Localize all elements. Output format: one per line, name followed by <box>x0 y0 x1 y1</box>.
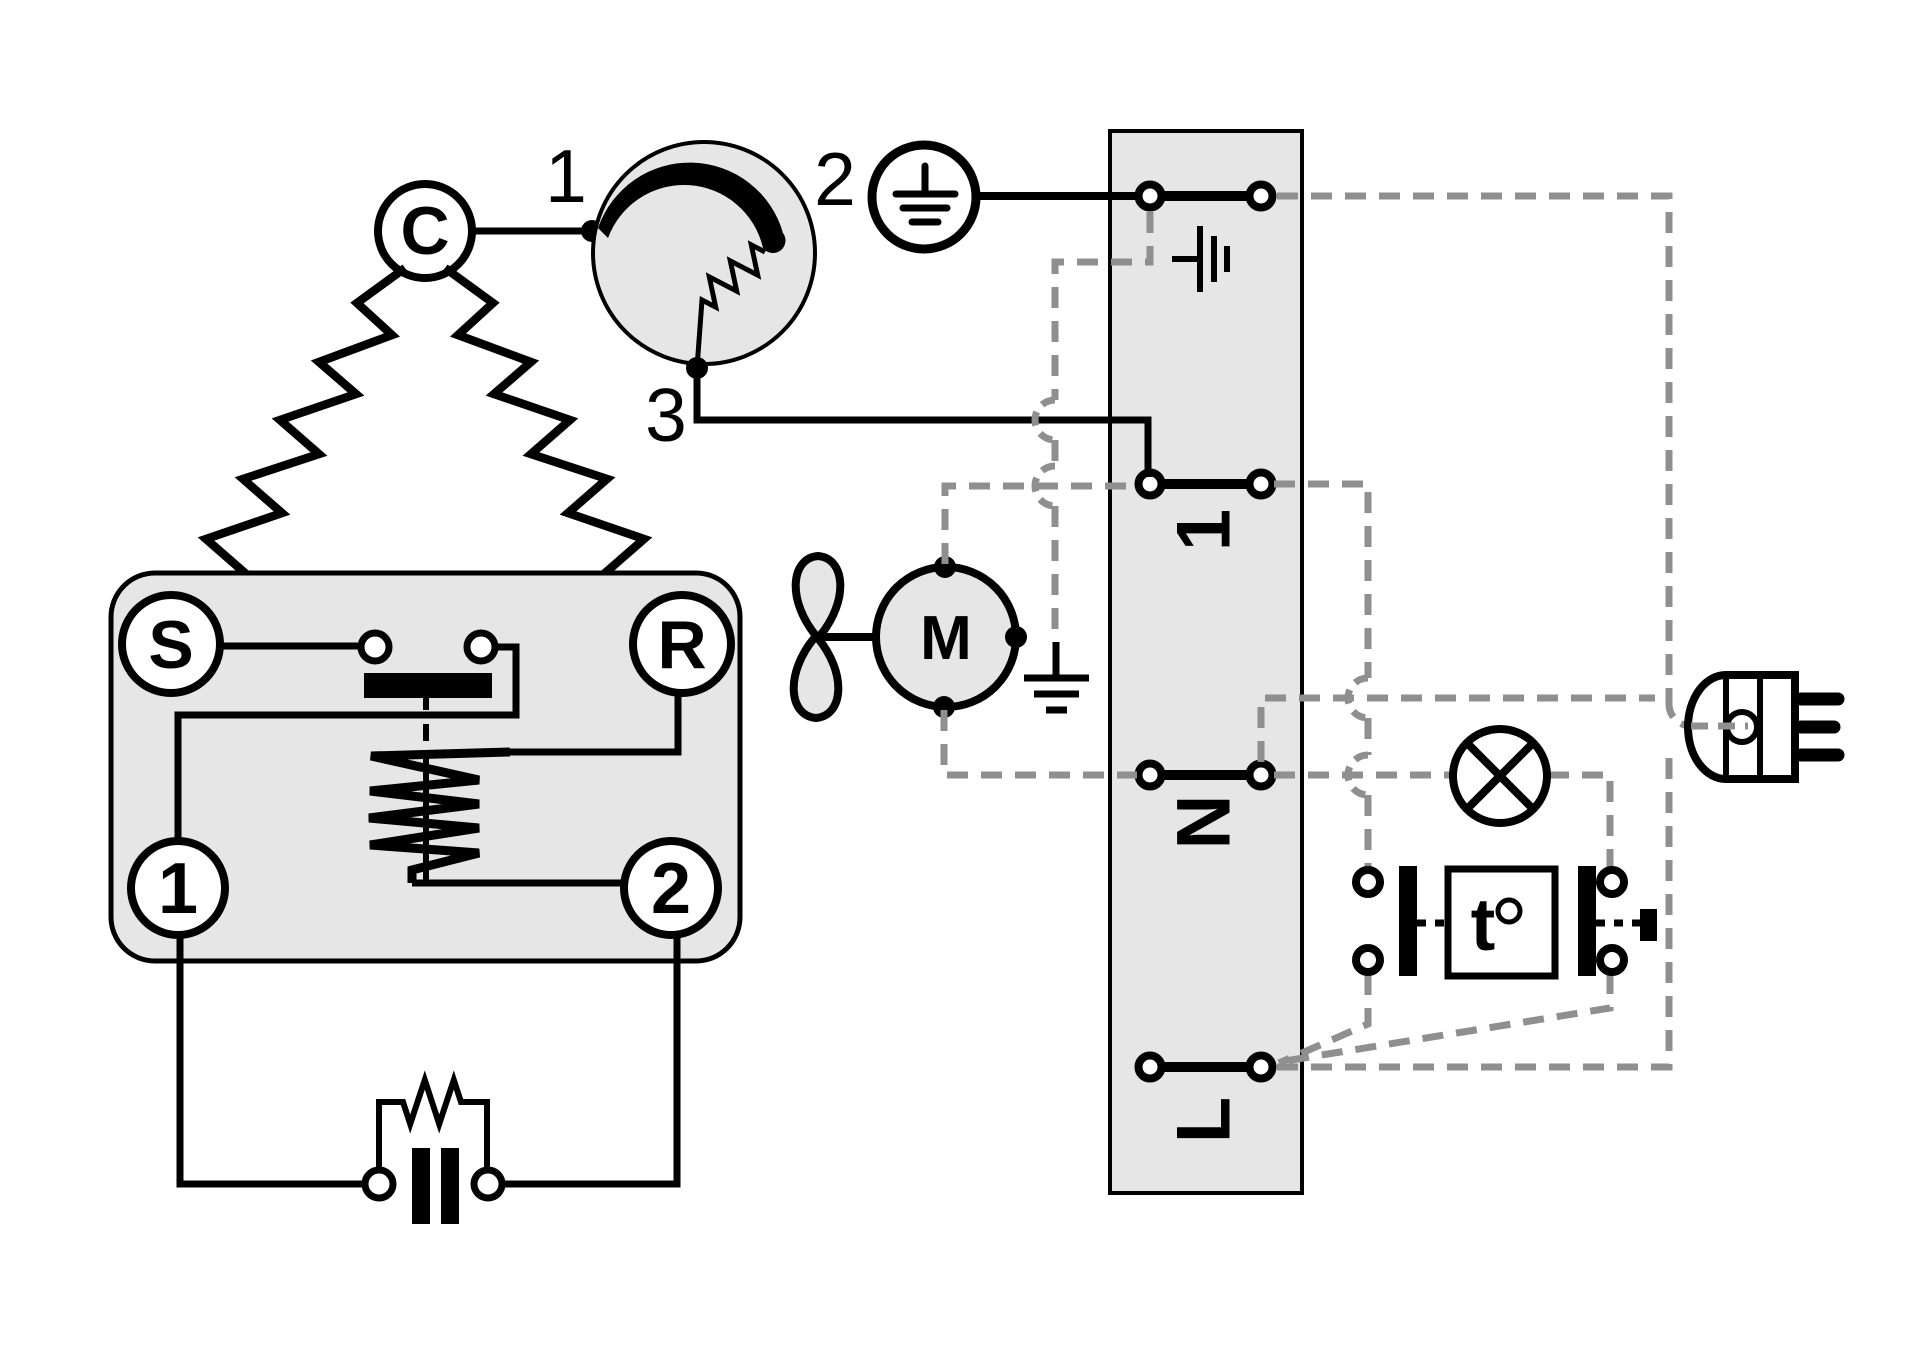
cap node right <box>474 1170 502 1198</box>
svg-text:R: R <box>657 607 706 683</box>
svg-text:1: 1 <box>1161 509 1246 551</box>
terminal S <box>122 595 220 693</box>
dashed N to lamp to door switch <box>1274 772 1452 779</box>
terminal 2 (box) <box>624 841 718 935</box>
svg-text:S: S <box>148 607 193 683</box>
capacitor plates <box>412 1148 430 1224</box>
door switch button <box>1640 909 1657 941</box>
fan motor M <box>876 567 1016 707</box>
fan shaft <box>818 633 878 641</box>
terminal strip <box>1110 131 1302 1193</box>
run winding (C to R) <box>445 268 644 598</box>
door switch contact bottom <box>1600 948 1624 972</box>
svg-text:N: N <box>1161 795 1246 850</box>
thermostat contact top <box>1356 870 1380 894</box>
dashed earth wire into plug pin <box>1691 723 1748 730</box>
earth label symbol on strip <box>1172 226 1227 292</box>
dashed terminal1 to thermostat <box>1274 484 1368 678</box>
svg-text:t: t <box>1471 883 1496 966</box>
svg-text:2: 2 <box>651 849 691 929</box>
wire earth circle to strip <box>975 192 1139 200</box>
start winding (C to S) <box>206 268 405 598</box>
terminal R <box>633 595 731 693</box>
wire terminal2 down <box>502 933 677 1184</box>
dashed motor bottom to N <box>944 710 1137 775</box>
fan blades <box>794 556 841 718</box>
bimetal bar <box>364 673 492 698</box>
motor terminal C <box>378 184 472 278</box>
wire S to contact <box>220 643 361 650</box>
earth symbol circle <box>872 145 976 249</box>
PTC bimetal crescent arc <box>598 163 786 253</box>
wire terminal1 down <box>180 933 365 1184</box>
relay coil spring <box>369 752 510 883</box>
door switch contact top <box>1600 870 1624 894</box>
dashed N to plug <box>1261 698 1655 762</box>
mains plug <box>1688 675 1795 779</box>
terminal earth bar <box>1150 191 1261 201</box>
svg-text:C: C <box>400 193 449 269</box>
svg-text:2: 2 <box>814 137 856 221</box>
thermostat contact bottom <box>1356 948 1380 972</box>
svg-text:L: L <box>1161 1097 1246 1143</box>
svg-text:M: M <box>920 604 972 673</box>
svg-text:1: 1 <box>158 849 198 929</box>
thermostat body t <box>1448 869 1555 976</box>
terminal 1 bar <box>1150 479 1261 489</box>
bleed resistor <box>379 1080 487 1170</box>
dashed thermostat to L <box>1279 974 1368 1063</box>
wire pin3 to terminal 1 <box>697 368 1148 477</box>
label L <box>1161 1097 1246 1143</box>
terminal 1 (box) <box>131 841 225 935</box>
plug earth pin circle <box>1727 712 1757 742</box>
door switch bar <box>1578 866 1596 976</box>
thermostat switch bar <box>1399 866 1417 976</box>
PTC resistor zigzag <box>697 245 765 368</box>
chassis earth by motor <box>1024 642 1089 710</box>
wire coil to terminal 2 <box>412 880 626 887</box>
wire contact b to terminal 1 <box>178 647 516 839</box>
wire R to relay coil <box>510 695 678 752</box>
dashed L to plug <box>1277 748 1669 1067</box>
dashed earth stub to chassis <box>1055 212 1150 400</box>
contact a <box>361 633 389 661</box>
wire C to PTC <box>472 228 620 235</box>
terminal L bar <box>1150 1062 1261 1072</box>
label N <box>1161 795 1246 850</box>
dashed earth to plug <box>1277 196 1669 703</box>
cap node left <box>365 1170 393 1198</box>
compressor box <box>111 573 740 961</box>
label 1 <box>1161 509 1246 551</box>
terminal N bar <box>1150 770 1261 780</box>
node pin1 dot <box>581 220 603 242</box>
door switch plunger link <box>1596 920 1640 927</box>
svg-text:3: 3 <box>645 373 687 457</box>
svg-text:1: 1 <box>545 134 587 218</box>
dashed motor top to terminal 1 <box>945 486 1137 564</box>
node pin3 dot <box>686 357 708 379</box>
bimetal stem / actuator rod <box>423 697 429 710</box>
contact b <box>467 633 495 661</box>
PTC starter body <box>593 142 815 364</box>
plug prongs <box>1801 699 1838 755</box>
thermostat actuator link <box>1417 920 1448 927</box>
lamp <box>1453 729 1547 823</box>
